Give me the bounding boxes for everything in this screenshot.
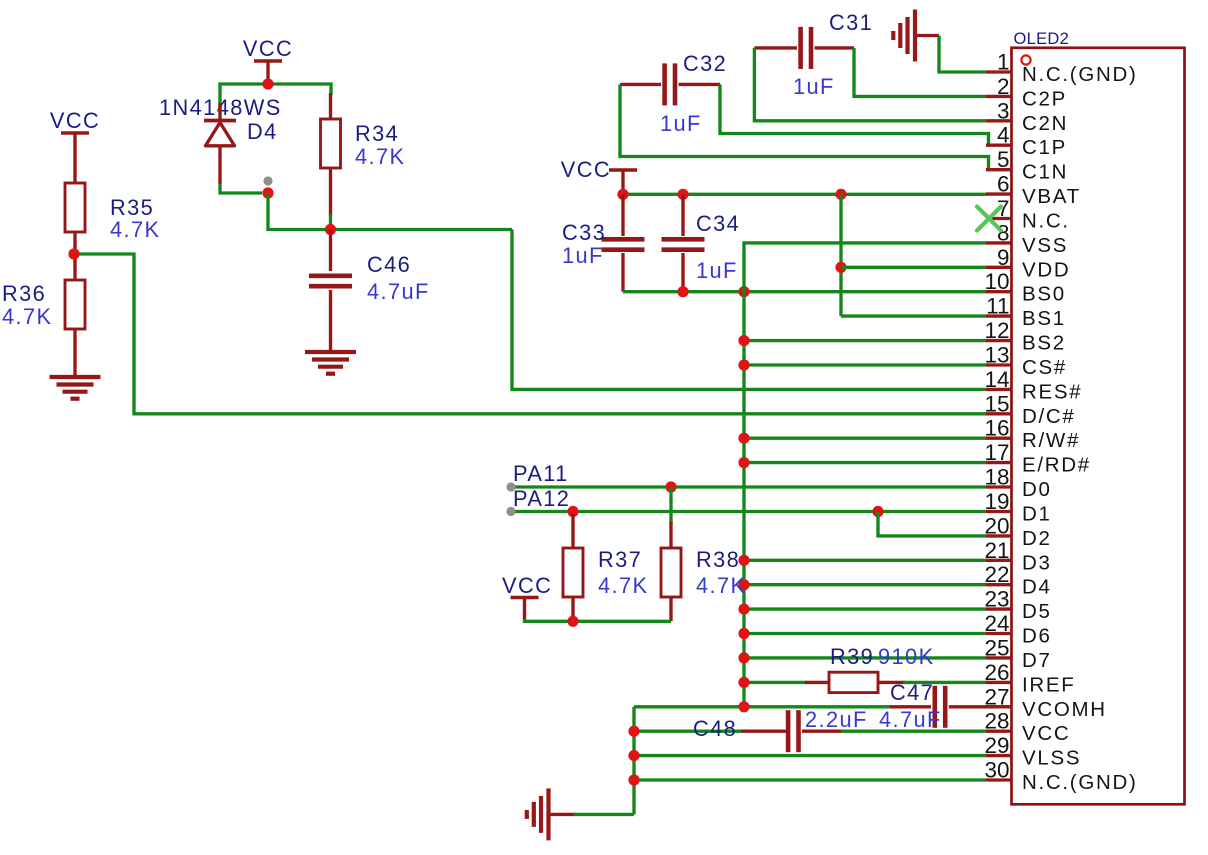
label R35 name — [110, 195, 154, 220]
pin number 3 — [997, 98, 1010, 123]
pin stub 3 — [986, 119, 1013, 122]
wire ground to pin 1 N.C.(GND) — [939, 36, 986, 73]
pin number 27 — [984, 684, 1009, 709]
resistor R34 bottom lead — [329, 168, 332, 216]
svg-text:26: 26 — [984, 660, 1009, 685]
junction PA12 at R37 — [567, 506, 578, 517]
wire pin 28 line to C48 — [634, 730, 743, 733]
capacitor C47 — [935, 686, 945, 728]
label R37 value 4.7K — [598, 573, 648, 598]
junction PA12/D1 at D2 branch — [872, 506, 883, 517]
label C34 value 1uF — [696, 258, 738, 283]
svg-text:R39: R39 — [830, 644, 874, 669]
capacitor C33 top lead — [621, 194, 624, 236]
resistor R35 — [65, 183, 85, 232]
capacitor C47 right lead to pin 27 — [949, 705, 1012, 708]
svg-text:C2P: C2P — [1022, 87, 1067, 110]
pin name IREF (pin 26) — [1022, 673, 1076, 696]
pin number 12 — [984, 318, 1009, 343]
junction bus at pin 13 line — [738, 359, 749, 370]
pin stub 26 — [986, 681, 1013, 684]
junction VDD branch node — [835, 262, 846, 273]
svg-text:28: 28 — [984, 709, 1009, 734]
junction R34/C46/RES# node — [325, 224, 336, 235]
svg-text:5: 5 — [997, 147, 1010, 172]
svg-text:VCOMH: VCOMH — [1022, 698, 1107, 721]
label C33 name — [562, 220, 606, 245]
svg-text:D2: D2 — [1022, 527, 1052, 550]
pin stub 6 — [986, 192, 1013, 195]
node PA11 left end (loose net end) — [506, 482, 515, 491]
pin name VSS (pin 8) — [1022, 234, 1068, 257]
pin name VCC (pin 28) — [1022, 722, 1070, 745]
net label PA12 — [513, 486, 570, 511]
svg-text:C1N: C1N — [1022, 161, 1068, 184]
capacitor C33 — [602, 239, 645, 249]
pin number 26 — [984, 660, 1009, 685]
pin number 16 — [984, 416, 1009, 441]
svg-text:2.2uF: 2.2uF — [805, 707, 868, 732]
svg-text:21: 21 — [984, 538, 1009, 563]
ground at pin 1 N.C.(GND) — [893, 10, 915, 62]
svg-text:C34: C34 — [696, 211, 740, 236]
pin stub 7 — [986, 217, 1013, 220]
svg-text:4.7K: 4.7K — [355, 144, 405, 169]
pin number 5 — [997, 147, 1010, 172]
svg-text:VBAT: VBAT — [1022, 185, 1081, 208]
pin stub 18 — [986, 485, 1013, 488]
svg-text:4.7K: 4.7K — [696, 573, 746, 598]
capacitor C34 bottom lead — [681, 253, 684, 292]
svg-text:1uF: 1uF — [793, 74, 835, 99]
label C34 name — [696, 211, 740, 236]
svg-text:4.7K: 4.7K — [110, 217, 160, 242]
capacitor C34 — [662, 239, 705, 249]
svg-text:VSS: VSS — [1022, 234, 1068, 257]
svg-text:24: 24 — [984, 611, 1009, 636]
svg-text:R38: R38 — [696, 547, 740, 572]
capacitor C48 right lead — [802, 730, 843, 733]
pin name D4 (pin 22) — [1022, 576, 1052, 599]
resistor R39 left lead — [805, 681, 829, 684]
svg-text:R34: R34 — [355, 121, 399, 146]
pin stub 29 — [986, 754, 1013, 757]
svg-text:R37: R37 — [598, 547, 642, 572]
resistor R38 bottom lead — [669, 597, 672, 621]
pin name VDD (pin 9) — [1022, 258, 1070, 281]
no-connect cross at pin 7 — [977, 207, 1001, 231]
svg-text:4: 4 — [997, 123, 1010, 148]
pin stub 8 — [986, 241, 1013, 244]
pin name D1 (pin 19) — [1022, 503, 1052, 526]
pin stub 20 — [986, 534, 1013, 537]
svg-text:25: 25 — [984, 635, 1009, 660]
svg-text:1uF: 1uF — [660, 111, 702, 136]
junction bus at pin 21 line — [738, 555, 749, 566]
wire VDD/BS1 branch vertical — [839, 194, 842, 316]
wire bus to pin 17 E/RD# — [744, 461, 986, 464]
pin name D7 (pin 25) — [1022, 649, 1052, 672]
junction bus at pin 26 line — [738, 677, 749, 688]
svg-text:VCC: VCC — [1022, 722, 1070, 745]
wire bus to pin 16 R/W# — [744, 437, 986, 440]
wire VCC rail to pin 6 VBAT — [623, 193, 986, 196]
label C47 value 4.7uF — [879, 707, 942, 732]
svg-text:23: 23 — [984, 587, 1009, 612]
pin stub 16 — [986, 437, 1013, 440]
wire D4 anode to junction — [220, 184, 262, 193]
power VCC at C33/C34 — [561, 157, 637, 194]
pin number 17 — [984, 440, 1009, 465]
svg-text:C1P: C1P — [1022, 136, 1067, 159]
junction bus at pin 22 line — [738, 579, 749, 590]
wire main bus from pin 8 VSS down to VCOMH line — [744, 243, 986, 707]
ground bottom rail — [527, 788, 549, 840]
pin stub 17 — [986, 461, 1013, 464]
wire bus to R39 — [744, 681, 807, 684]
junction rail at pin 29 line — [628, 750, 639, 761]
svg-text:D7: D7 — [1022, 649, 1052, 672]
junction bus at BS0 line — [738, 286, 749, 297]
label C31 name — [829, 10, 873, 35]
pin name BS1 (pin 11) — [1022, 307, 1066, 330]
svg-text:C47: C47 — [890, 680, 934, 705]
svg-text:12: 12 — [984, 318, 1009, 343]
label R34 name — [355, 121, 399, 146]
label R35 value 4.7K — [110, 217, 160, 242]
pin number 24 — [984, 611, 1009, 636]
pin number 22 — [984, 562, 1009, 587]
pin name VCOMH (pin 27) — [1022, 698, 1107, 721]
pin name CS# (pin 13) — [1022, 356, 1067, 379]
junction D4 anode node — [262, 187, 273, 198]
svg-text:29: 29 — [984, 733, 1009, 758]
pin name E/RD# (pin 17) — [1022, 454, 1091, 477]
wire bus to pin 25 D7 — [744, 656, 986, 659]
wire to pin 30 N.C.(GND) — [634, 778, 986, 781]
pin stub 30 — [986, 778, 1013, 781]
pin stub 9 — [986, 266, 1013, 269]
svg-text:E/RD#: E/RD# — [1022, 454, 1091, 477]
svg-text:3: 3 — [997, 98, 1010, 123]
pin name D5 (pin 23) — [1022, 600, 1052, 623]
label R36 name — [2, 281, 46, 306]
wire net PA11 to pin 18 D0 — [511, 485, 986, 488]
junction C34 at BS0 line — [677, 286, 688, 297]
capacitor C48 — [788, 710, 798, 752]
capacitor C31 right lead — [815, 46, 854, 49]
svg-text:4.7K: 4.7K — [2, 304, 52, 329]
pin number 10 — [984, 269, 1009, 294]
wire C31 left to pin 3 C2N — [754, 48, 986, 121]
wire bus to pin 13 CS# — [744, 363, 986, 366]
svg-text:D1: D1 — [1022, 503, 1052, 526]
wire R34/C46 node to pin 14 RES# — [512, 230, 986, 390]
junction bus at pin 24 line — [738, 628, 749, 639]
label C48 name — [693, 716, 737, 741]
svg-text:D4: D4 — [1022, 576, 1052, 599]
diode D4 (cathode bar up) — [204, 103, 236, 184]
svg-text:9: 9 — [997, 245, 1010, 270]
wire VCC rail over D4 and R34 — [220, 84, 331, 111]
label C32 name — [683, 51, 727, 76]
pin 1 marker circle — [1021, 55, 1030, 64]
pin stub 15 — [986, 412, 1013, 415]
wire left rail VCOMH/VCC/VLSS/NC vertical — [632, 707, 635, 815]
svg-text:C48: C48 — [693, 716, 737, 741]
junction bus at pin 12 line — [738, 335, 749, 346]
capacitor C32 — [665, 63, 675, 105]
svg-text:27: 27 — [984, 684, 1009, 709]
wire bus to pin 23 D5 — [744, 607, 986, 610]
label R39 value 910K — [878, 644, 935, 669]
pin stub 25 — [986, 656, 1013, 659]
pin stub 2 — [986, 95, 1013, 98]
label C31 value 1uF — [793, 74, 835, 99]
svg-text:17: 17 — [984, 440, 1009, 465]
resistor R38 — [661, 548, 681, 597]
pin stub 1 — [986, 70, 1013, 73]
pin stub 4 — [986, 144, 1013, 147]
pin stub 24 — [986, 632, 1013, 635]
wire bus to pin 21 D3 — [744, 559, 986, 562]
junction VCC rail at C34 — [677, 189, 688, 200]
junction bus at pin 23 line — [738, 604, 749, 615]
svg-text:C2N: C2N — [1022, 112, 1068, 135]
svg-text:1: 1 — [997, 50, 1010, 75]
pin number 30 — [984, 758, 1009, 783]
wire VCC to R37/R38 bottoms — [525, 619, 672, 621]
ground below R36 — [50, 377, 101, 399]
wire bus to pin 24 D6 — [744, 632, 986, 635]
svg-text:C33: C33 — [562, 220, 606, 245]
svg-text:N.C.(GND): N.C.(GND) — [1022, 771, 1138, 794]
svg-text:16: 16 — [984, 416, 1009, 441]
resistor R37 — [563, 548, 583, 597]
resistor R37 bottom lead — [571, 597, 574, 621]
svg-text:BS2: BS2 — [1022, 332, 1066, 355]
junction rail at pin 28 line — [628, 726, 639, 737]
junction VCC rail at D4/R34 — [262, 78, 273, 89]
svg-text:1uF: 1uF — [696, 258, 738, 283]
pin number 20 — [984, 513, 1009, 538]
wire ground to bottom rail — [574, 813, 634, 816]
svg-text:19: 19 — [984, 489, 1009, 514]
pin number 13 — [984, 343, 1009, 368]
wire R39 to pin 26 IREF — [903, 681, 986, 684]
resistor R38 top lead — [669, 522, 672, 548]
pin name BS2 (pin 12) — [1022, 332, 1066, 355]
svg-text:D5: D5 — [1022, 600, 1052, 623]
pin number 15 — [984, 391, 1009, 416]
capacitor C31 left lead — [754, 46, 797, 49]
label C48 value 2.2uF — [805, 707, 868, 732]
svg-text:15: 15 — [984, 391, 1009, 416]
junction bus at pin 17 line — [738, 457, 749, 468]
resistor R35 bottom lead / R36 top lead — [73, 232, 76, 280]
pin name D6 (pin 24) — [1022, 625, 1052, 648]
pin name D3 (pin 21) — [1022, 551, 1052, 574]
svg-text:13: 13 — [984, 343, 1009, 368]
svg-text:14: 14 — [984, 367, 1009, 392]
pin stub 5 — [986, 168, 1013, 171]
svg-text:2: 2 — [997, 74, 1010, 99]
pin number 8 — [997, 220, 1010, 245]
capacitor C32 right lead — [679, 83, 720, 86]
svg-text:1uF: 1uF — [562, 243, 604, 268]
node pin end above D4 junction (loose net end) — [263, 176, 272, 185]
pin name N.C.(GND) (pin 1) — [1022, 63, 1138, 86]
wire C32 left to pin 5 C1N — [620, 84, 989, 169]
wire D1 node to pin 20 D2 — [878, 512, 986, 536]
pin stub 10 — [986, 290, 1013, 293]
wire C31 right to pin 2 C2P — [854, 48, 986, 97]
wire net PA12 to pin 19 D1 — [511, 510, 986, 513]
connector OLED2 body — [1012, 48, 1185, 805]
pin number 29 — [984, 733, 1009, 758]
svg-text:CS#: CS# — [1022, 356, 1067, 379]
junction bus at pin 16 line — [738, 433, 749, 444]
capacitor C46 top lead — [329, 230, 332, 272]
resistor R39 (horizontal) — [829, 672, 878, 692]
svg-text:VCC: VCC — [561, 157, 611, 182]
wire to pin 11 BS1 — [841, 314, 986, 317]
svg-text:D4: D4 — [247, 119, 278, 144]
pin stub 23 — [986, 607, 1013, 610]
svg-text:VCC: VCC — [243, 36, 293, 61]
svg-text:11: 11 — [986, 294, 1009, 319]
power VCC at R35 — [50, 108, 100, 183]
label R37 name — [598, 547, 642, 572]
pin stub 22 — [986, 583, 1013, 586]
wire node R35/R36 to pin 15 D/C# — [74, 254, 986, 414]
wire C33/C34 ground side to pin 10 BS0 — [623, 290, 986, 293]
svg-text:BS1: BS1 — [1022, 307, 1066, 330]
pin name D0 (pin 18) — [1022, 478, 1052, 501]
pin number 1 — [997, 50, 1010, 75]
pin stub 28 — [986, 730, 1013, 733]
wire C48 to pin 28 VCC — [841, 730, 986, 733]
pin stub 11 — [986, 314, 1013, 317]
pin stub 12 — [986, 339, 1013, 342]
wire bus to pin 22 D4 — [744, 583, 986, 586]
pin name C1N (pin 5) — [1022, 161, 1068, 184]
ground below C46 — [305, 352, 356, 374]
label OLED2 name — [1014, 30, 1070, 48]
svg-text:910K: 910K — [878, 644, 935, 669]
svg-text:20: 20 — [984, 513, 1009, 538]
svg-text:VDD: VDD — [1022, 258, 1070, 281]
svg-text:C32: C32 — [683, 51, 727, 76]
power VCC at D4/R34 — [243, 36, 293, 84]
pin number 25 — [984, 635, 1009, 660]
junction VCC rail at C33 — [617, 189, 628, 200]
wire C32 right to pin 4 C1P — [720, 84, 989, 145]
pin stub 13 — [986, 363, 1013, 366]
svg-text:R36: R36 — [2, 281, 46, 306]
resistor R34 top lead — [329, 93, 332, 119]
svg-text:PA11: PA11 — [513, 461, 569, 486]
pin name D/C# (pin 15) — [1022, 405, 1076, 428]
svg-text:6: 6 — [997, 172, 1010, 197]
capacitor C48 left lead — [741, 730, 786, 733]
pin name N.C. (pin 7) — [1022, 210, 1070, 233]
svg-text:18: 18 — [984, 465, 1009, 490]
pin name C2P (pin 2) — [1022, 87, 1067, 110]
pin name VBAT (pin 6) — [1022, 185, 1081, 208]
capacitor C34 top lead — [681, 194, 684, 236]
label C46 value 4.7uF — [367, 279, 430, 304]
pin number 2 — [997, 74, 1010, 99]
resistor R34 — [321, 119, 341, 168]
svg-text:D3: D3 — [1022, 551, 1052, 574]
capacitor C47 left lead — [890, 705, 931, 708]
svg-text:BS0: BS0 — [1022, 283, 1066, 306]
wire pin 27 VCOMH line — [634, 705, 892, 708]
svg-text:D6: D6 — [1022, 625, 1052, 648]
pin stub 27 — [986, 705, 1013, 708]
pin number 14 — [984, 367, 1009, 392]
capacitor C46 bottom lead — [329, 290, 332, 352]
pin stub 21 — [986, 559, 1013, 562]
svg-text:22: 22 — [984, 562, 1009, 587]
svg-text:D/C#: D/C# — [1022, 405, 1076, 428]
capacitor C31 — [801, 27, 811, 69]
capacitor C33 bottom lead — [621, 253, 624, 292]
pin number 19 — [984, 489, 1009, 514]
resistor R36 — [65, 280, 85, 329]
node PA12 left end (loose net end) — [506, 507, 515, 516]
power VCC at R37/R38 — [502, 573, 552, 619]
ground lead to pin 1 — [915, 34, 939, 37]
bottom ground lead — [549, 813, 577, 816]
svg-text:30: 30 — [984, 758, 1009, 783]
resistor R37 top lead — [571, 514, 574, 548]
pin name C2N (pin 3) — [1022, 112, 1068, 135]
junction PA11 at R38 — [665, 481, 676, 492]
svg-text:D0: D0 — [1022, 478, 1052, 501]
pin number 6 — [997, 172, 1010, 197]
capacitor C46 — [309, 276, 352, 286]
pin stub 19 — [986, 510, 1013, 513]
junction R37 bottom node — [567, 616, 578, 627]
junction bus end at VCOMH line — [738, 701, 749, 712]
resistor R39 right lead — [878, 681, 905, 684]
svg-text:PA12: PA12 — [513, 486, 570, 511]
junction R35/R36 divider node — [68, 248, 79, 259]
pin number 23 — [984, 587, 1009, 612]
pin name VLSS (pin 29) — [1022, 747, 1081, 770]
wire bus to pin 12 BS2 — [744, 339, 986, 342]
pin number 18 — [984, 465, 1009, 490]
svg-text:4.7uF: 4.7uF — [879, 707, 942, 732]
pin stub 14 — [986, 388, 1013, 391]
label R38 value 4.7K — [696, 573, 746, 598]
svg-text:RES#: RES# — [1022, 380, 1082, 403]
svg-text:8: 8 — [997, 220, 1010, 245]
svg-text:IREF: IREF — [1022, 673, 1076, 696]
svg-text:OLED2: OLED2 — [1014, 30, 1070, 48]
label D4 value 1N4148WS — [159, 95, 282, 120]
pin name R/W# (pin 16) — [1022, 429, 1080, 452]
pin number 21 — [984, 538, 1009, 563]
pin name RES# (pin 14) — [1022, 380, 1082, 403]
svg-text:4.7uF: 4.7uF — [367, 279, 430, 304]
svg-text:R/W#: R/W# — [1022, 429, 1080, 452]
svg-text:VCC: VCC — [502, 573, 552, 598]
junction VCC rail at VDD branch — [835, 189, 846, 200]
pin number 28 — [984, 709, 1009, 734]
